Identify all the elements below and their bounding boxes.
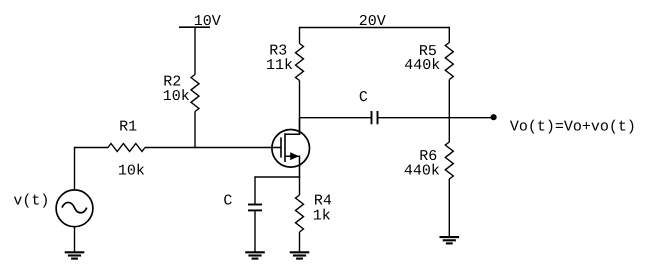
wire rail to R5 bbox=[448, 27, 450, 43]
wire drain to R3 bbox=[299, 81, 301, 135]
svg-text:1k: 1k bbox=[313, 208, 331, 225]
wire R1 to gate bbox=[145, 147, 281, 149]
svg-text:440k: 440k bbox=[404, 57, 440, 74]
transistor Q1 circle bbox=[272, 130, 310, 168]
capacitor C coupling plates bbox=[371, 111, 373, 124]
Q1 drain lead bbox=[285, 118, 300, 135]
Q1 gate bar bbox=[280, 137, 282, 157]
resistor R2 bbox=[191, 75, 199, 112]
svg-text:20V: 20V bbox=[359, 13, 386, 30]
resistor R1 bbox=[108, 144, 145, 152]
svg-text:R1: R1 bbox=[119, 118, 137, 135]
wire vt top bbox=[74, 147, 76, 191]
svg-text:C: C bbox=[223, 193, 232, 210]
svg-text:11k: 11k bbox=[266, 57, 293, 74]
svg-text:Vo(t)=Vo+vo(t): Vo(t)=Vo+vo(t) bbox=[510, 118, 636, 135]
wire R2 to gate wire bbox=[194, 112, 196, 149]
power rail 20V bbox=[299, 27, 450, 29]
resistor R3 bbox=[296, 44, 304, 81]
wire output node to R6 bbox=[448, 118, 450, 142]
Q1 channel bar bbox=[284, 133, 286, 162]
ground (R4) bbox=[290, 252, 310, 258]
power rail 10V bar bbox=[179, 26, 210, 28]
svg-text:10V: 10V bbox=[194, 13, 221, 30]
wire vt to R1 bbox=[75, 147, 109, 149]
wire rail to R2 bbox=[194, 27, 196, 74]
wire R4 to ground bbox=[299, 232, 301, 252]
Q1 source lead bbox=[285, 156, 300, 177]
wire C to output dot bbox=[378, 117, 494, 119]
wire R3 to rail bbox=[299, 28, 301, 44]
source sine wave bbox=[62, 202, 87, 212]
ground (R6) bbox=[440, 237, 460, 243]
wire drain node to C bbox=[300, 117, 372, 119]
capacitor C bypass plates bbox=[248, 204, 262, 206]
ground (bypass C) bbox=[245, 252, 265, 258]
svg-text:v(t): v(t) bbox=[13, 193, 49, 210]
resistor R5 bbox=[445, 43, 453, 80]
source v(t) circle bbox=[56, 190, 93, 227]
wire R5 to output node bbox=[448, 80, 450, 118]
svg-text:10k: 10k bbox=[118, 163, 145, 180]
svg-text:C: C bbox=[359, 89, 368, 106]
svg-text:10k: 10k bbox=[163, 88, 190, 105]
wire R6 to ground bbox=[448, 179, 450, 237]
wire vt bottom bbox=[74, 227, 76, 253]
resistor R6 bbox=[445, 142, 453, 179]
wire source node to R4 bbox=[299, 177, 301, 195]
wire source node to bypass C bbox=[255, 176, 300, 178]
Q1 source arrow bbox=[290, 152, 299, 160]
wire bypass C bottom bbox=[254, 210, 256, 252]
resistor R4 bbox=[296, 195, 304, 232]
svg-text:440k: 440k bbox=[404, 163, 440, 180]
wire bypass C top bbox=[254, 176, 256, 204]
node output dot bbox=[491, 114, 497, 120]
ground (v(t)) bbox=[65, 252, 85, 258]
